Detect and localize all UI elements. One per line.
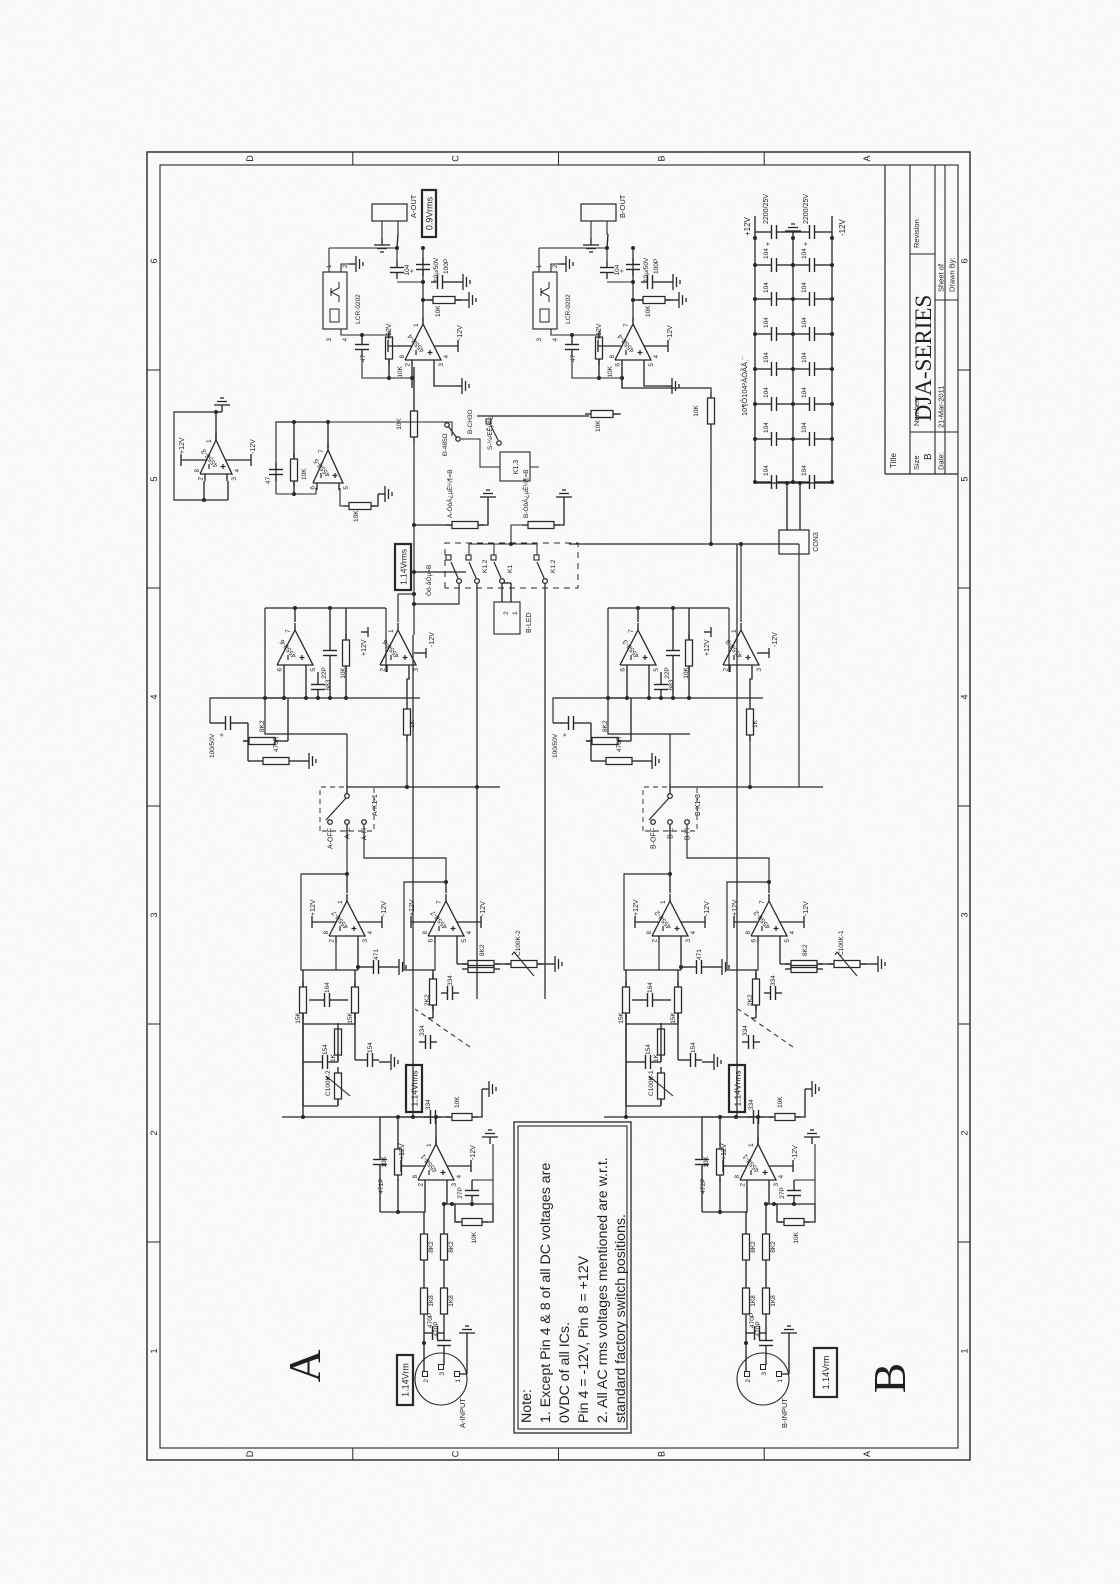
svg-text:10K: 10K xyxy=(793,1231,800,1243)
svg-text:1K8: 1K8 xyxy=(750,1295,757,1307)
svg-text:1: 1 xyxy=(777,1379,784,1383)
svg-text:B-H: B-H xyxy=(685,828,692,840)
svg-text:27P: 27P xyxy=(457,1187,464,1199)
svg-text:154: 154 xyxy=(645,1044,652,1055)
svg-text:CON3: CON3 xyxy=(813,532,820,552)
svg-text:Ð-485Ω: Ð-485Ω xyxy=(442,433,449,456)
svg-text:2K2: 2K2 xyxy=(424,994,431,1006)
svg-text:154: 154 xyxy=(690,1042,697,1053)
svg-text:2: 2 xyxy=(405,363,412,367)
svg-text:+: + xyxy=(765,242,772,246)
svg-text:-12V: -12V xyxy=(381,901,388,916)
svg-text:10K: 10K xyxy=(353,510,360,522)
svg-text:6: 6 xyxy=(620,668,627,672)
svg-text:6: 6 xyxy=(428,939,435,943)
svg-text:6: 6 xyxy=(277,668,284,672)
svg-text:-12V: -12V xyxy=(838,218,847,236)
svg-text:B: B xyxy=(656,1451,666,1457)
svg-text:5: 5 xyxy=(343,486,350,490)
svg-text:7: 7 xyxy=(436,900,443,904)
svg-text:471: 471 xyxy=(696,949,703,960)
svg-text:-12V: -12V xyxy=(704,901,711,916)
svg-text:15K: 15K xyxy=(618,1012,625,1024)
svg-text:C100K-2: C100K-2 xyxy=(325,1070,332,1096)
svg-text:1.14Vrms: 1.14Vrms xyxy=(399,549,409,585)
svg-text:470P: 470P xyxy=(427,1313,434,1328)
svg-text:A-INPUT: A-INPUT xyxy=(458,1398,467,1428)
svg-text:334: 334 xyxy=(425,1099,432,1110)
svg-text:8K2: 8K2 xyxy=(750,1241,757,1253)
svg-text:-12V: -12V xyxy=(250,439,257,454)
svg-text:3: 3 xyxy=(362,939,369,943)
svg-text:47: 47 xyxy=(265,476,272,484)
svg-text:3: 3 xyxy=(413,668,420,672)
svg-text:2200/25V: 2200/25V xyxy=(803,194,810,224)
svg-text:104: 104 xyxy=(801,352,808,363)
svg-text:2: 2 xyxy=(745,1379,752,1383)
svg-text:6: 6 xyxy=(960,258,970,263)
svg-text:5: 5 xyxy=(653,668,660,672)
svg-text:22P: 22P xyxy=(321,667,328,679)
svg-text:5: 5 xyxy=(648,363,655,367)
svg-text:B: B xyxy=(923,453,934,460)
svg-text:8K2: 8K2 xyxy=(259,720,266,732)
svg-text:A-H: A-H xyxy=(362,828,369,840)
svg-text:Size: Size xyxy=(912,455,921,470)
svg-text:10µ/50V: 10µ/50V xyxy=(643,257,650,282)
svg-text:104: 104 xyxy=(763,422,770,433)
svg-text:C100K-1: C100K-1 xyxy=(648,1070,655,1096)
svg-text:154: 154 xyxy=(322,1044,329,1055)
svg-text:1K: 1K xyxy=(330,1053,337,1062)
svg-text:10K: 10K xyxy=(607,365,614,377)
svg-text:1K: 1K xyxy=(752,719,759,728)
svg-text:B-LED: B-LED xyxy=(526,612,533,633)
svg-text:7: 7 xyxy=(318,449,325,453)
svg-text:104: 104 xyxy=(763,352,770,363)
svg-text:+12V: +12V xyxy=(732,899,739,916)
svg-text:470R: 470R xyxy=(273,736,280,752)
svg-text:5: 5 xyxy=(960,476,970,481)
svg-text:1K: 1K xyxy=(653,1053,660,1062)
svg-text:104: 104 xyxy=(763,248,770,259)
svg-text:B-OUT: B-OUT xyxy=(618,194,627,218)
svg-text:8K2: 8K2 xyxy=(479,944,486,956)
svg-text:15K: 15K xyxy=(347,1012,354,1024)
svg-text:A-OUT: A-OUT xyxy=(409,194,418,218)
svg-text:-12V: -12V xyxy=(792,1145,799,1160)
svg-text:470P: 470P xyxy=(433,1321,440,1336)
svg-text:+12V: +12V xyxy=(361,639,368,656)
svg-text:C100K-2: C100K-2 xyxy=(515,930,522,956)
svg-text:3: 3 xyxy=(439,1372,446,1376)
svg-text:K1.2: K1.2 xyxy=(550,559,557,573)
svg-text:4: 4 xyxy=(149,694,159,699)
svg-text:1: 1 xyxy=(512,611,519,615)
svg-text:8K2: 8K2 xyxy=(448,1241,455,1253)
svg-text:1.14Vrm: 1.14Vrm xyxy=(401,1363,411,1397)
svg-text:B-L: B-L xyxy=(668,828,675,839)
svg-text:104: 104 xyxy=(763,387,770,398)
svg-text:10µ/50V: 10µ/50V xyxy=(433,257,440,282)
svg-text:1: 1 xyxy=(206,439,213,443)
svg-text:1: 1 xyxy=(426,1143,433,1147)
svg-text:1: 1 xyxy=(960,1348,970,1353)
svg-text:B-CH3O: B-CH3O xyxy=(467,409,474,434)
svg-text:10K: 10K xyxy=(703,1156,710,1168)
svg-text:4: 4 xyxy=(960,694,970,699)
svg-text:10K: 10K xyxy=(454,1096,461,1108)
svg-text:D: D xyxy=(245,155,255,162)
svg-text:5: 5 xyxy=(784,939,791,943)
svg-text:164: 164 xyxy=(324,982,331,993)
svg-text:+12V: +12V xyxy=(721,1143,728,1160)
svg-text:5: 5 xyxy=(149,476,159,481)
svg-text:-12V: -12V xyxy=(470,1145,477,1160)
svg-text:Òô·åÖµ=B: Òô·åÖµ=B xyxy=(424,565,433,596)
svg-text:15K: 15K xyxy=(295,1012,302,1024)
svg-text:-12V: -12V xyxy=(803,901,810,916)
svg-text:470P: 470P xyxy=(749,1313,756,1328)
svg-text:1: 1 xyxy=(455,1379,462,1383)
svg-text:1: 1 xyxy=(748,1143,755,1147)
svg-text:2: 2 xyxy=(198,477,205,481)
svg-text:C: C xyxy=(451,1450,461,1457)
svg-text:8K2: 8K2 xyxy=(428,1241,435,1253)
svg-text:683: 683 xyxy=(325,679,332,690)
svg-text:standard factory switch positi: standard factory switch positions. xyxy=(613,1214,629,1423)
svg-text:470R: 470R xyxy=(616,736,623,752)
svg-text:Note:: Note: xyxy=(519,1389,535,1423)
svg-text:+: + xyxy=(409,269,416,273)
svg-text:A: A xyxy=(862,155,872,161)
svg-text:+: + xyxy=(619,269,626,273)
svg-text:10K: 10K xyxy=(396,418,403,430)
svg-text:47: 47 xyxy=(570,354,577,362)
svg-text:Date:: Date: xyxy=(937,452,946,470)
svg-text:3: 3 xyxy=(960,912,970,917)
svg-text:10K: 10K xyxy=(645,305,652,317)
svg-text:334: 334 xyxy=(742,1025,749,1036)
svg-text:1K: 1K xyxy=(409,719,416,728)
svg-text:334: 334 xyxy=(770,975,777,986)
svg-text:B-ÒôÁ¿µÈ¼¶=B: B-ÒôÁ¿µÈ¼¶=B xyxy=(521,469,530,518)
svg-text:15K: 15K xyxy=(670,1012,677,1024)
svg-text:1: 1 xyxy=(413,323,420,327)
svg-text:1: 1 xyxy=(731,629,738,633)
svg-text:104: 104 xyxy=(801,248,808,259)
svg-text:2: 2 xyxy=(960,1130,970,1135)
svg-text:1K8: 1K8 xyxy=(770,1295,777,1307)
svg-text:-12V: -12V xyxy=(457,325,464,340)
svg-text:B-INPUT: B-INPUT xyxy=(780,1398,789,1428)
svg-text:2. All AC rms voltages mention: 2. All AC rms voltages mentioned are w.r… xyxy=(595,1157,611,1423)
svg-text:683: 683 xyxy=(668,679,675,690)
svg-text:3: 3 xyxy=(149,912,159,917)
svg-text:Revision: Revision xyxy=(912,219,921,248)
svg-text:Sheet of: Sheet of xyxy=(937,263,946,292)
svg-text:104: 104 xyxy=(801,387,808,398)
svg-text:10K: 10K xyxy=(693,405,700,417)
svg-text:164: 164 xyxy=(647,982,654,993)
svg-text:Title: Title xyxy=(889,453,898,468)
svg-text:104: 104 xyxy=(801,282,808,293)
svg-text:5: 5 xyxy=(310,668,317,672)
svg-text:1: 1 xyxy=(149,1348,159,1353)
svg-text:104: 104 xyxy=(801,422,808,433)
svg-text:+12V: +12V xyxy=(633,899,640,916)
svg-text:A-ÒôÁ¿µÈ¼¶=B: A-ÒôÁ¿µÈ¼¶=B xyxy=(445,469,454,518)
svg-text:-12V: -12V xyxy=(772,632,779,647)
svg-text:3: 3 xyxy=(773,1183,780,1187)
svg-text:A: A xyxy=(279,1349,330,1382)
svg-text:10K: 10K xyxy=(301,468,308,480)
svg-text:10K: 10K xyxy=(471,1231,478,1243)
svg-text:2: 2 xyxy=(652,939,659,943)
svg-text:+12V: +12V xyxy=(743,216,752,236)
svg-text:+12V: +12V xyxy=(310,899,317,916)
svg-text:3: 3 xyxy=(438,363,445,367)
svg-text:8K2: 8K2 xyxy=(802,944,809,956)
svg-text:8K2: 8K2 xyxy=(602,720,609,732)
svg-text:27P: 27P xyxy=(779,1187,786,1199)
svg-text:472P: 472P xyxy=(700,1178,707,1193)
svg-text:6: 6 xyxy=(751,939,758,943)
svg-text:22P: 22P xyxy=(664,667,671,679)
svg-text:8K2: 8K2 xyxy=(770,1241,777,1253)
svg-text:Drawn By:: Drawn By: xyxy=(948,257,957,292)
svg-text:3: 3 xyxy=(231,477,238,481)
svg-text:100/50V: 100/50V xyxy=(209,733,216,758)
svg-text:+12V: +12V xyxy=(179,437,186,454)
svg-text:-12V: -12V xyxy=(429,632,436,647)
svg-text:10K: 10K xyxy=(381,1156,388,1168)
svg-text:154: 154 xyxy=(367,1042,374,1053)
svg-text:2K2: 2K2 xyxy=(747,994,754,1006)
svg-text:2200/25V: 2200/25V xyxy=(763,194,770,224)
svg-text:10K: 10K xyxy=(595,420,602,432)
svg-text:Pin 4 = -12V, Pin 8 = +12V: Pin 4 = -12V, Pin 8 = +12V xyxy=(576,1255,592,1423)
svg-text:10K: 10K xyxy=(397,365,404,377)
svg-text:C: C xyxy=(451,155,461,162)
svg-text:B: B xyxy=(656,155,666,161)
svg-text:2: 2 xyxy=(418,1183,425,1187)
svg-text:2: 2 xyxy=(149,1130,159,1135)
svg-text:471P: 471P xyxy=(378,1178,385,1193)
svg-text:10K: 10K xyxy=(777,1096,784,1108)
svg-text:-12V: -12V xyxy=(480,901,487,916)
svg-text:B: B xyxy=(864,1363,915,1394)
svg-text:47: 47 xyxy=(360,354,367,362)
svg-text:+12V: +12V xyxy=(399,1143,406,1160)
svg-text:2: 2 xyxy=(329,939,336,943)
svg-text:100P: 100P xyxy=(653,259,660,274)
svg-text:10¶Ô104²ÁÓÃÂ˲¨: 10¶Ô104²ÁÓÃÂ˲¨ xyxy=(740,356,749,416)
svg-text:A-K1-1: A-K1-1 xyxy=(372,794,379,816)
svg-text:LCR-0202: LCR-0202 xyxy=(355,294,362,324)
svg-text:A: A xyxy=(862,1451,872,1457)
svg-text:6: 6 xyxy=(615,363,622,367)
svg-text:471: 471 xyxy=(373,949,380,960)
svg-text:LCR-0202: LCR-0202 xyxy=(565,294,572,324)
svg-text:0VDC of all ICs.: 0VDC of all ICs. xyxy=(557,1322,573,1423)
svg-text:1.14Vrm: 1.14Vrm xyxy=(821,1356,831,1390)
svg-text:7: 7 xyxy=(628,629,635,633)
svg-text:+: + xyxy=(219,733,226,737)
svg-text:1: 1 xyxy=(337,900,344,904)
svg-text:7: 7 xyxy=(759,900,766,904)
svg-text:21-Mar-2011: 21-Mar-2011 xyxy=(937,386,946,428)
svg-text:100P: 100P xyxy=(443,259,450,274)
svg-text:6: 6 xyxy=(149,258,159,263)
svg-text:+: + xyxy=(803,242,810,246)
svg-text:470P: 470P xyxy=(755,1321,762,1336)
svg-text:7: 7 xyxy=(623,323,630,327)
svg-text:104: 104 xyxy=(763,317,770,328)
svg-text:3: 3 xyxy=(756,668,763,672)
svg-text:104: 104 xyxy=(801,317,808,328)
svg-text:A-L: A-L xyxy=(345,828,352,839)
svg-text:D: D xyxy=(245,1450,255,1457)
svg-text:B-K1-3: B-K1-3 xyxy=(695,794,702,816)
svg-text:K1.3: K1.3 xyxy=(513,460,520,475)
svg-text:3: 3 xyxy=(451,1183,458,1187)
svg-text:-12V: -12V xyxy=(667,325,674,340)
svg-text:K1: K1 xyxy=(507,565,514,573)
svg-text:DJA-SERIES: DJA-SERIES xyxy=(911,295,936,422)
svg-text:2: 2 xyxy=(423,1379,430,1383)
svg-text:2: 2 xyxy=(740,1183,747,1187)
svg-text:1.14Vrms: 1.14Vrms xyxy=(410,1070,420,1106)
svg-text:3: 3 xyxy=(685,939,692,943)
svg-text:+: + xyxy=(562,733,569,737)
svg-text:1: 1 xyxy=(660,900,667,904)
svg-text:334: 334 xyxy=(447,975,454,986)
svg-text:3: 3 xyxy=(761,1372,768,1376)
svg-text:104: 104 xyxy=(801,465,808,476)
svg-text:100/50V: 100/50V xyxy=(552,733,559,758)
svg-text:10K: 10K xyxy=(435,305,442,317)
svg-text:C100K-1: C100K-1 xyxy=(838,930,845,956)
svg-text:0.9Vrms: 0.9Vrms xyxy=(425,196,435,230)
svg-text:104: 104 xyxy=(763,282,770,293)
svg-text:+12V: +12V xyxy=(704,639,711,656)
svg-text:1: 1 xyxy=(388,629,395,633)
svg-text:2: 2 xyxy=(503,611,510,615)
svg-text:1K8: 1K8 xyxy=(448,1295,455,1307)
svg-text:1K8: 1K8 xyxy=(428,1295,435,1307)
svg-text:5: 5 xyxy=(461,939,468,943)
svg-text:K1.2: K1.2 xyxy=(482,559,489,573)
svg-text:104: 104 xyxy=(763,465,770,476)
svg-text:1. Except Pin 4 & 8 of all DC: 1. Except Pin 4 & 8 of all DC voltages a… xyxy=(538,1163,554,1423)
svg-text:334: 334 xyxy=(419,1025,426,1036)
svg-text:334: 334 xyxy=(748,1099,755,1110)
svg-text:7: 7 xyxy=(285,629,292,633)
